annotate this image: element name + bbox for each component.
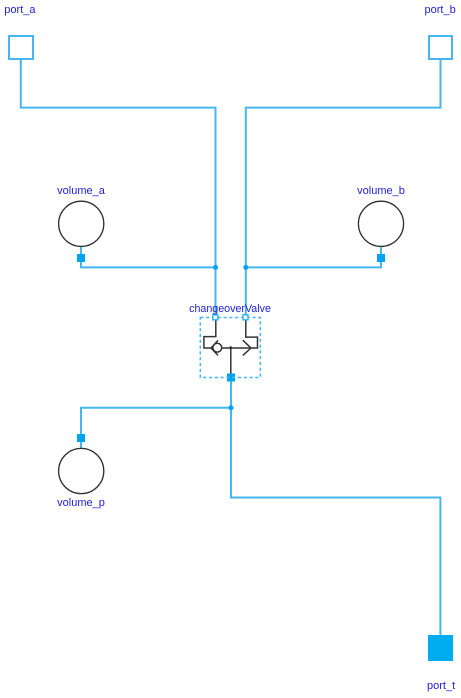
svg-text:port_b: port_b <box>425 4 456 16</box>
svg-text:changeoverValve: changeoverValve <box>189 303 271 315</box>
svg-text:port_a: port_a <box>4 4 36 16</box>
svg-text:volume_p: volume_p <box>57 497 105 509</box>
svg-text:port_t: port_t <box>427 680 455 692</box>
svg-text:volume_a: volume_a <box>57 185 106 197</box>
svg-text:volume_b: volume_b <box>357 185 405 197</box>
